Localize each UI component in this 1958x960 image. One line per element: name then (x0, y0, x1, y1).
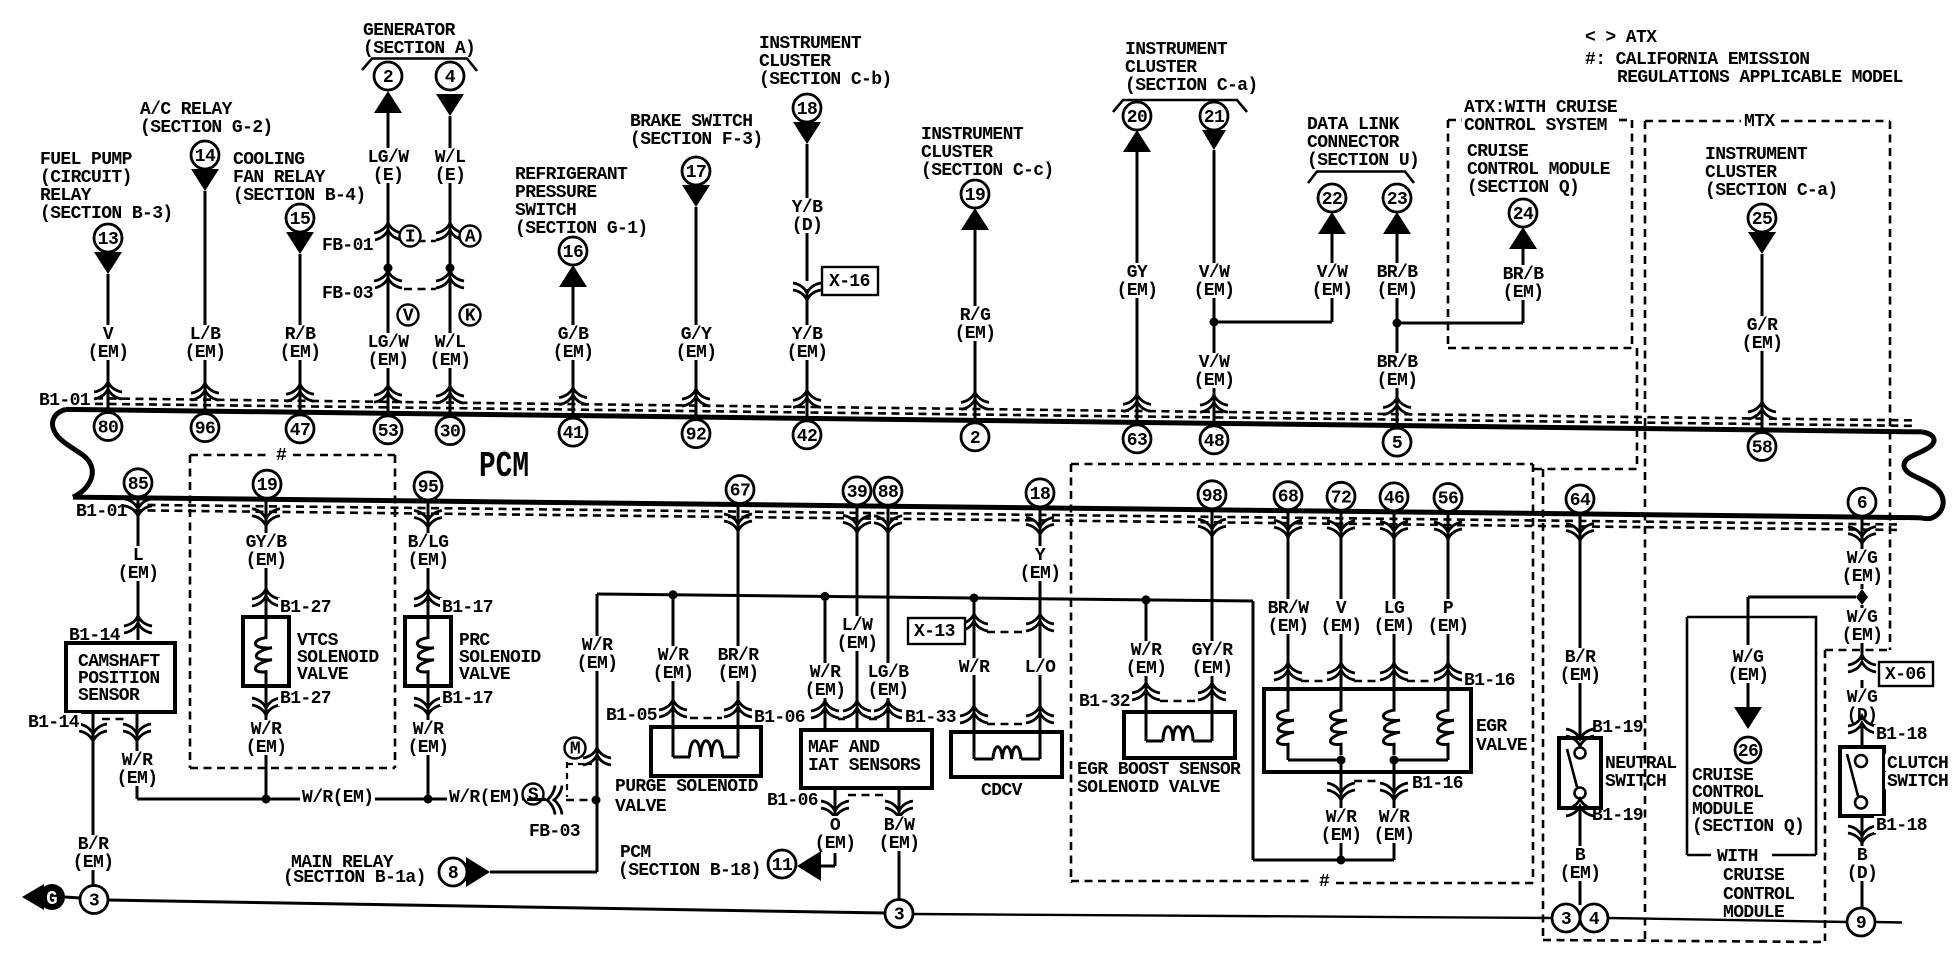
svg-text:80: 80 (98, 419, 118, 439)
svg-text:58: 58 (1752, 439, 1772, 459)
svg-text:25: 25 (1752, 210, 1772, 230)
connector circle 8 (439, 858, 467, 886)
coil CDCV (973, 732, 976, 759)
svg-text:CLUSTER: CLUSTER (921, 143, 993, 163)
svg-text:(SECTION A): (SECTION A) (363, 39, 475, 59)
svg-text:(EM): (EM) (1728, 666, 1769, 686)
svg-text:63: 63 (1127, 431, 1147, 451)
svg-text:SWITCH: SWITCH (1887, 772, 1948, 792)
svg-text:13: 13 (98, 230, 118, 250)
wire W/R CDCV (973, 598, 976, 732)
svg-text:LG: LG (1384, 599, 1404, 619)
svg-text:B1-01: B1-01 (39, 391, 91, 411)
wire B/R (EM) camshaft (92, 712, 95, 886)
svg-text:MAF AND: MAF AND (808, 738, 880, 758)
wire link cruise to BR/B (1397, 322, 1523, 325)
label BR/B (EM) lower (1375, 353, 1420, 388)
connector M dashed bracket (566, 762, 568, 797)
svg-text:(EM): (EM) (430, 351, 471, 371)
box EGR valve (1264, 689, 1471, 772)
PCM pin 67 (726, 476, 754, 504)
svg-text:(EM): (EM) (1126, 659, 1167, 679)
junction dot rail MAF (821, 592, 830, 601)
wire W/L (E) (449, 116, 452, 414)
connector circle 11 (768, 850, 796, 878)
label W/G (D) (1845, 688, 1880, 723)
wire W/R stub at S (527, 798, 546, 801)
svg-text:(EM): (EM) (1194, 371, 1235, 391)
label LG/W (EM) (366, 333, 411, 368)
coil VTCS solenoid (255, 617, 272, 686)
svg-text:56: 56 (1438, 490, 1458, 510)
label W/R (EM) purge (651, 646, 696, 681)
junction dot main W/R (592, 796, 601, 805)
wire O (EM) (834, 788, 837, 817)
label W/R (EM) EGR2 (1372, 808, 1417, 843)
svg-text:EGR BOOST SENSOR: EGR BOOST SENSOR (1077, 760, 1241, 780)
svg-text:(CIRCUIT): (CIRCUIT) (40, 168, 132, 188)
connector M chevron (583, 748, 611, 758)
connector circle 24 (1509, 199, 1537, 227)
svg-text:(SECTION Q): (SECTION Q) (1692, 817, 1804, 837)
node V (398, 305, 419, 326)
svg-text:CRUISE: CRUISE (1467, 142, 1529, 162)
svg-text:(EM): (EM) (280, 343, 321, 363)
connector chevron pin 18b (1026, 524, 1054, 534)
wire W/R MAF (824, 596, 827, 730)
connector chevron pin 56 (1434, 529, 1462, 539)
svg-text:(EM): (EM) (408, 551, 449, 571)
PCM pin 2 (961, 423, 989, 451)
PCM pin 63 (1123, 425, 1151, 453)
svg-text:B1-06: B1-06 (767, 791, 818, 811)
PCM pin 92 (682, 420, 710, 448)
box VTCS solenoid valve (243, 617, 289, 686)
arrow down from cluster MTX (1748, 232, 1776, 254)
ground symbol G (22, 884, 44, 910)
connector B1-14 bottom chevrons (79, 731, 107, 741)
label WITH CRUISE CONTROL MODULE (1715, 847, 1760, 864)
svg-text:B1-27: B1-27 (280, 689, 331, 709)
svg-text:39: 39 (847, 483, 867, 503)
wire W/R purge (672, 595, 675, 727)
PCM pin 53 (374, 416, 402, 444)
svg-text:(EM): (EM) (1428, 617, 1469, 637)
svg-text:(EM): (EM) (879, 834, 920, 854)
connector B1-01 top dashed lines (95, 398, 1915, 420)
box camshaft position sensor (66, 643, 175, 712)
svg-text:72: 72 (1331, 488, 1351, 508)
svg-text:SOLENOID VALVE: SOLENOID VALVE (1077, 778, 1221, 798)
svg-text:CLUTCH: CLUTCH (1887, 754, 1948, 774)
label W/R (EM) PRC (406, 720, 451, 755)
connector chevron pin 6 (1848, 534, 1876, 544)
coil EGR boost (1145, 712, 1148, 741)
box clutch switch (1840, 747, 1884, 816)
connector FB-01 chevrons and dashes (374, 223, 402, 233)
coils EGR valve (1277, 691, 1294, 755)
wire L/B (EM) (204, 191, 207, 411)
ground circle 4 (1580, 904, 1608, 932)
svg-text:MTX: MTX (1744, 112, 1775, 132)
svg-text:W/R(EM): W/R(EM) (449, 788, 520, 808)
wire V/W (EM) upper (1213, 150, 1216, 423)
svg-text:K: K (465, 307, 476, 327)
wire GY/R (EM) (1211, 510, 1214, 712)
junction dot rail EGR valve return (1337, 856, 1346, 865)
svg-text:30: 30 (440, 423, 460, 443)
connector FB-03 chevrons and dashes (374, 271, 402, 281)
svg-text:67: 67 (730, 482, 750, 502)
wire Y (EM) (1039, 508, 1042, 732)
connector FB-03 chevron on wire (547, 786, 555, 815)
svg-text:(EM): (EM) (1192, 659, 1233, 679)
wire ground rail 3 (1608, 918, 1847, 922)
svg-text:15: 15 (290, 210, 310, 230)
label L (EM) (116, 546, 161, 581)
svg-text:46: 46 (1384, 489, 1404, 509)
arrow up to cruise control module (1509, 227, 1537, 249)
connector chevron pin 47 (286, 384, 314, 394)
svg-text:W/G: W/G (1847, 688, 1878, 708)
label W/G (EM) clutch 1 (1840, 549, 1885, 584)
label L/O (1023, 658, 1058, 675)
wire G/Y (EM) (695, 207, 698, 417)
connector B1-18 bottom chevron (1848, 833, 1876, 843)
svg-text:(EM): (EM) (117, 769, 158, 789)
arrow down from cooling fan relay (286, 232, 314, 254)
junction dot PRC W/R (424, 795, 433, 804)
label W/R (EM) riser (575, 636, 620, 671)
wire ground rail 1 (108, 900, 885, 913)
svg-text:B/LG: B/LG (408, 533, 449, 553)
svg-text:(EM): (EM) (246, 551, 287, 571)
svg-text:5: 5 (1392, 434, 1402, 454)
wire Y/B (D) (806, 144, 809, 281)
connector circle 22 (1318, 184, 1346, 212)
svg-text:BR/W: BR/W (1268, 599, 1310, 619)
svg-text:(EM): (EM) (118, 564, 159, 584)
svg-text:2: 2 (970, 429, 980, 449)
svg-text:CONTROL: CONTROL (1723, 885, 1794, 905)
label LG/W (E) (366, 148, 411, 183)
wire B/R (EM) neutral (1579, 514, 1582, 738)
svg-text:G/Y: G/Y (681, 325, 712, 345)
wire Y/B (EM) (806, 289, 809, 418)
PCM pin 88 (874, 477, 902, 505)
connector chevron pin 80 (94, 382, 122, 392)
connector B1-06 bottom chevrons (821, 808, 849, 818)
svg-text:18: 18 (797, 100, 817, 120)
svg-text:IAT SENSORS: IAT SENSORS (808, 756, 921, 776)
svg-text:64: 64 (1570, 491, 1591, 511)
arrow up to instrument cluster C-c (961, 208, 989, 230)
label W/R (EM) EGR boost (1124, 641, 1169, 676)
ground circle 3 mid (885, 900, 913, 928)
PCM pin 80 (94, 413, 122, 441)
label GY/R (EM) (1190, 641, 1235, 676)
svg-text:X-13: X-13 (914, 622, 955, 642)
svg-text:(SECTION B-1a): (SECTION B-1a) (283, 868, 426, 888)
svg-text:W/G: W/G (1847, 608, 1878, 628)
svg-text:68: 68 (1278, 488, 1298, 508)
connector chevron pin 48 (1200, 395, 1228, 405)
svg-text:PCM: PCM (620, 843, 651, 863)
label W/R (EM) camshaft (115, 751, 160, 786)
wires EGR valve out (1340, 760, 1343, 794)
svg-text:85: 85 (128, 475, 148, 495)
svg-text:A: A (465, 228, 476, 248)
arrow down from instrument cluster C-D (793, 122, 821, 144)
wire W/G (EM) clutch upper (1861, 517, 1864, 589)
wire BR/B (EM) upper (1396, 234, 1399, 426)
svg-text:(EM): (EM) (368, 351, 409, 371)
connector circle 15 (286, 204, 314, 232)
connector B1-14 top chevron (124, 616, 152, 626)
svg-text:(EM): (EM) (837, 634, 878, 654)
wire G/R (EM) (1761, 254, 1764, 430)
svg-text:#: # (276, 446, 287, 466)
svg-text:48: 48 (1204, 432, 1224, 452)
svg-text:23: 23 (1387, 190, 1407, 210)
svg-text:CDCV: CDCV (981, 781, 1023, 801)
coil purge solenoid (672, 727, 675, 757)
connector chevron pin 63 (1123, 394, 1151, 404)
svg-text:INSTRUMENT: INSTRUMENT (1125, 40, 1228, 60)
svg-text:BR/B: BR/B (1377, 353, 1419, 373)
connector chevron pin 58 (1748, 402, 1776, 412)
label R/B (EM) (278, 325, 323, 360)
label B (D) (1845, 846, 1880, 881)
svg-text:(SECTION C-b): (SECTION C-b) (759, 70, 892, 90)
label LG/B (EM) (866, 663, 911, 698)
svg-text:(EM): (EM) (185, 343, 226, 363)
PCM pin 46 (1380, 483, 1408, 511)
label G/B (EM) (551, 325, 596, 360)
svg-text:95: 95 (418, 478, 438, 498)
svg-text:B/R: B/R (78, 835, 109, 855)
connector B1-17 top chevron (414, 589, 442, 599)
label W/G (EM) cruise (1726, 648, 1771, 683)
connector chevron pin 67 (724, 521, 752, 531)
connector B1-19 bottom chevron (1566, 799, 1594, 809)
wire dashed FB-03 to junction (566, 799, 590, 802)
connector circle 14 (191, 141, 219, 169)
connector chevron pin 2 (961, 392, 989, 402)
wire BR/R (EM) (737, 505, 740, 728)
PCM pin 98 (1198, 481, 1226, 509)
svg-text:W/R(EM): W/R(EM) (302, 788, 373, 808)
label R/G (EM) (953, 306, 998, 341)
svg-text:(EM): (EM) (1312, 281, 1353, 301)
svg-text:(EM): (EM) (955, 324, 996, 344)
svg-text:(EM): (EM) (1560, 666, 1601, 686)
switch clutch (1855, 755, 1867, 767)
dashed box ATX with cruise control system (1448, 119, 1462, 122)
wire W/G (EM) cruise (1747, 597, 1750, 645)
connector chevron pin 41 (559, 388, 587, 398)
connector chevron pin 72 (1327, 528, 1355, 538)
node I (400, 226, 421, 247)
connector B1-17 bottom chevron (414, 705, 442, 715)
svg-text:19: 19 (965, 186, 985, 206)
junction dot W/L (446, 264, 455, 273)
junction dot rail CDCV (970, 594, 979, 603)
junction dot BR/B (1393, 319, 1402, 328)
svg-text:B1-14: B1-14 (28, 713, 80, 733)
PCM pin 96 (191, 414, 219, 442)
connector chevron pin 39 (843, 522, 871, 532)
svg-text:REFRIGERANT: REFRIGERANT (515, 165, 628, 185)
svg-text:Y/B: Y/B (792, 325, 823, 345)
wire LG (EM) (1393, 512, 1396, 689)
svg-text:(D): (D) (792, 216, 823, 236)
svg-text:V/W: V/W (1317, 263, 1348, 283)
box MAF and IAT sensors (801, 730, 932, 788)
svg-text:B1-33: B1-33 (905, 708, 956, 728)
svg-text:3: 3 (1561, 910, 1571, 930)
svg-text:19: 19 (257, 476, 277, 496)
svg-text:EGR: EGR (1476, 717, 1507, 737)
ground circle 3 left (80, 886, 108, 914)
svg-text:< > ATX: < > ATX (1585, 28, 1657, 48)
svg-text:(EM): (EM) (1020, 564, 1061, 584)
dashed box california # EGR region (1071, 463, 1533, 466)
connector chevron pin 53 (374, 385, 402, 395)
PCM pin 41 (559, 418, 587, 446)
box purge solenoid valve (651, 727, 761, 776)
label W/R (EM) MAF (803, 663, 848, 698)
connector circle 17 (682, 157, 710, 185)
svg-text:BR/B: BR/B (1377, 263, 1419, 283)
label BR/B (EM) upper (1375, 263, 1420, 298)
svg-text:(EM): (EM) (246, 738, 287, 758)
svg-text:96: 96 (195, 420, 215, 440)
svg-text:2: 2 (383, 68, 393, 88)
svg-text:(EM): (EM) (1321, 617, 1362, 637)
svg-text:LG/W: LG/W (368, 148, 410, 168)
PCM pin 42 (793, 421, 821, 449)
svg-text:(EM): (EM) (676, 343, 717, 363)
svg-text:24: 24 (1513, 205, 1534, 225)
label P (EM) (1426, 599, 1471, 634)
label CLUTCH SWITCH (1885, 754, 1950, 771)
svg-text:(EM): (EM) (653, 664, 694, 684)
dashed box california # VTCS region (190, 454, 271, 457)
connector box X-16 (822, 267, 878, 295)
svg-text:(EM): (EM) (73, 853, 114, 873)
connector B1-27 bottom chevron (252, 705, 280, 715)
svg-text:O: O (830, 816, 841, 836)
svg-text:(EM): (EM) (1374, 617, 1415, 637)
svg-text:INSTRUMENT: INSTRUMENT (759, 34, 862, 54)
svg-text:22: 22 (1322, 190, 1342, 210)
label W/R(EM) inline 2 (447, 788, 522, 805)
wire GY/B (EM) (265, 499, 268, 617)
svg-text:21: 21 (1204, 108, 1225, 128)
connector B1-01 bottom dashed lines (134, 505, 1900, 525)
connector B1-32 chevrons (1132, 683, 1160, 693)
label V/W (EM) DLC (1310, 263, 1355, 298)
node A (460, 226, 481, 247)
label L/B (EM) (183, 325, 228, 360)
junction dot EGR v3 (1390, 756, 1399, 765)
connector circle 25 (1748, 204, 1776, 232)
svg-text:B: B (1575, 846, 1586, 866)
PCM pin 6 (1848, 488, 1876, 516)
wire W/R (EM) PRC (427, 686, 430, 799)
svg-text:B1-18: B1-18 (1876, 725, 1927, 745)
svg-text:8: 8 (448, 864, 458, 884)
wire ground rail 4 (1875, 921, 1902, 924)
connector box X-13 (908, 618, 965, 644)
label L/W (EM) (835, 616, 880, 651)
label W/L (EM) (428, 333, 473, 368)
svg-text:PURGE SOLENOID: PURGE SOLENOID (615, 777, 759, 797)
wire link pin22 to V/W (1214, 321, 1332, 324)
connector circle 2 generator (374, 62, 402, 90)
connector B1-16 bottom chevrons (1327, 790, 1355, 800)
svg-text:LG/B: LG/B (868, 663, 910, 683)
node S (523, 784, 544, 805)
svg-text:B1-19: B1-19 (1592, 806, 1643, 826)
connector circle 20 (1123, 102, 1151, 130)
wire W/R rail (597, 594, 1253, 601)
wire R/G (EM) (974, 230, 977, 420)
svg-text:X-16: X-16 (829, 272, 870, 292)
wire L/W (EM) (856, 506, 859, 730)
svg-text:16: 16 (563, 243, 583, 263)
svg-text:CONNECTOR: CONNECTOR (1307, 133, 1400, 153)
svg-text:CRUISE: CRUISE (1723, 866, 1785, 886)
arrow right to main relay wire (466, 857, 490, 887)
label GY (EM) (1115, 263, 1160, 298)
wire GY (EM) (1136, 152, 1139, 422)
arrow down from A/C relay (191, 169, 219, 191)
connector chevron pin 64 (1566, 531, 1594, 541)
arrow down from fuel pump relay (94, 252, 122, 274)
wire V (EM) (1340, 511, 1343, 689)
arrow up to DLC pin 23 (1383, 212, 1411, 234)
svg-text:(EM): (EM) (408, 738, 449, 758)
svg-text:(SECTION C-c): (SECTION C-c) (921, 161, 1054, 181)
svg-text:W/R: W/R (122, 751, 153, 771)
connector chevron pin 46 (1380, 528, 1408, 538)
box PRC solenoid valve (405, 617, 451, 686)
connector circle 13 (94, 224, 122, 252)
connector circle 23 (1383, 184, 1411, 212)
svg-text:(SECTION F-3): (SECTION F-3) (630, 130, 763, 150)
svg-text:B1-05: B1-05 (606, 706, 657, 726)
svg-text:WITH: WITH (1717, 847, 1758, 867)
svg-text:26: 26 (1738, 742, 1758, 762)
PCM pin 47 (286, 415, 314, 443)
svg-text:G/B: G/B (558, 325, 589, 345)
arrow up to generator pin 2 (374, 91, 402, 113)
svg-text:(SECTION G-2): (SECTION G-2) (140, 118, 273, 138)
PCM right squiggle end (1904, 432, 1943, 519)
svg-text:SENSOR: SENSOR (78, 686, 140, 706)
PCM pin 72 (1327, 482, 1355, 510)
svg-text:FB-03: FB-03 (322, 284, 373, 304)
svg-text:BRAKE SWITCH: BRAKE SWITCH (630, 112, 752, 132)
svg-text:47: 47 (290, 421, 310, 441)
label W/R CDCV (957, 658, 992, 675)
connector B1-05 B1-06 chevrons (659, 700, 687, 710)
svg-text:W/L: W/L (435, 148, 466, 168)
svg-text:98: 98 (1202, 487, 1222, 507)
svg-text:FUEL PUMP: FUEL PUMP (40, 150, 133, 170)
